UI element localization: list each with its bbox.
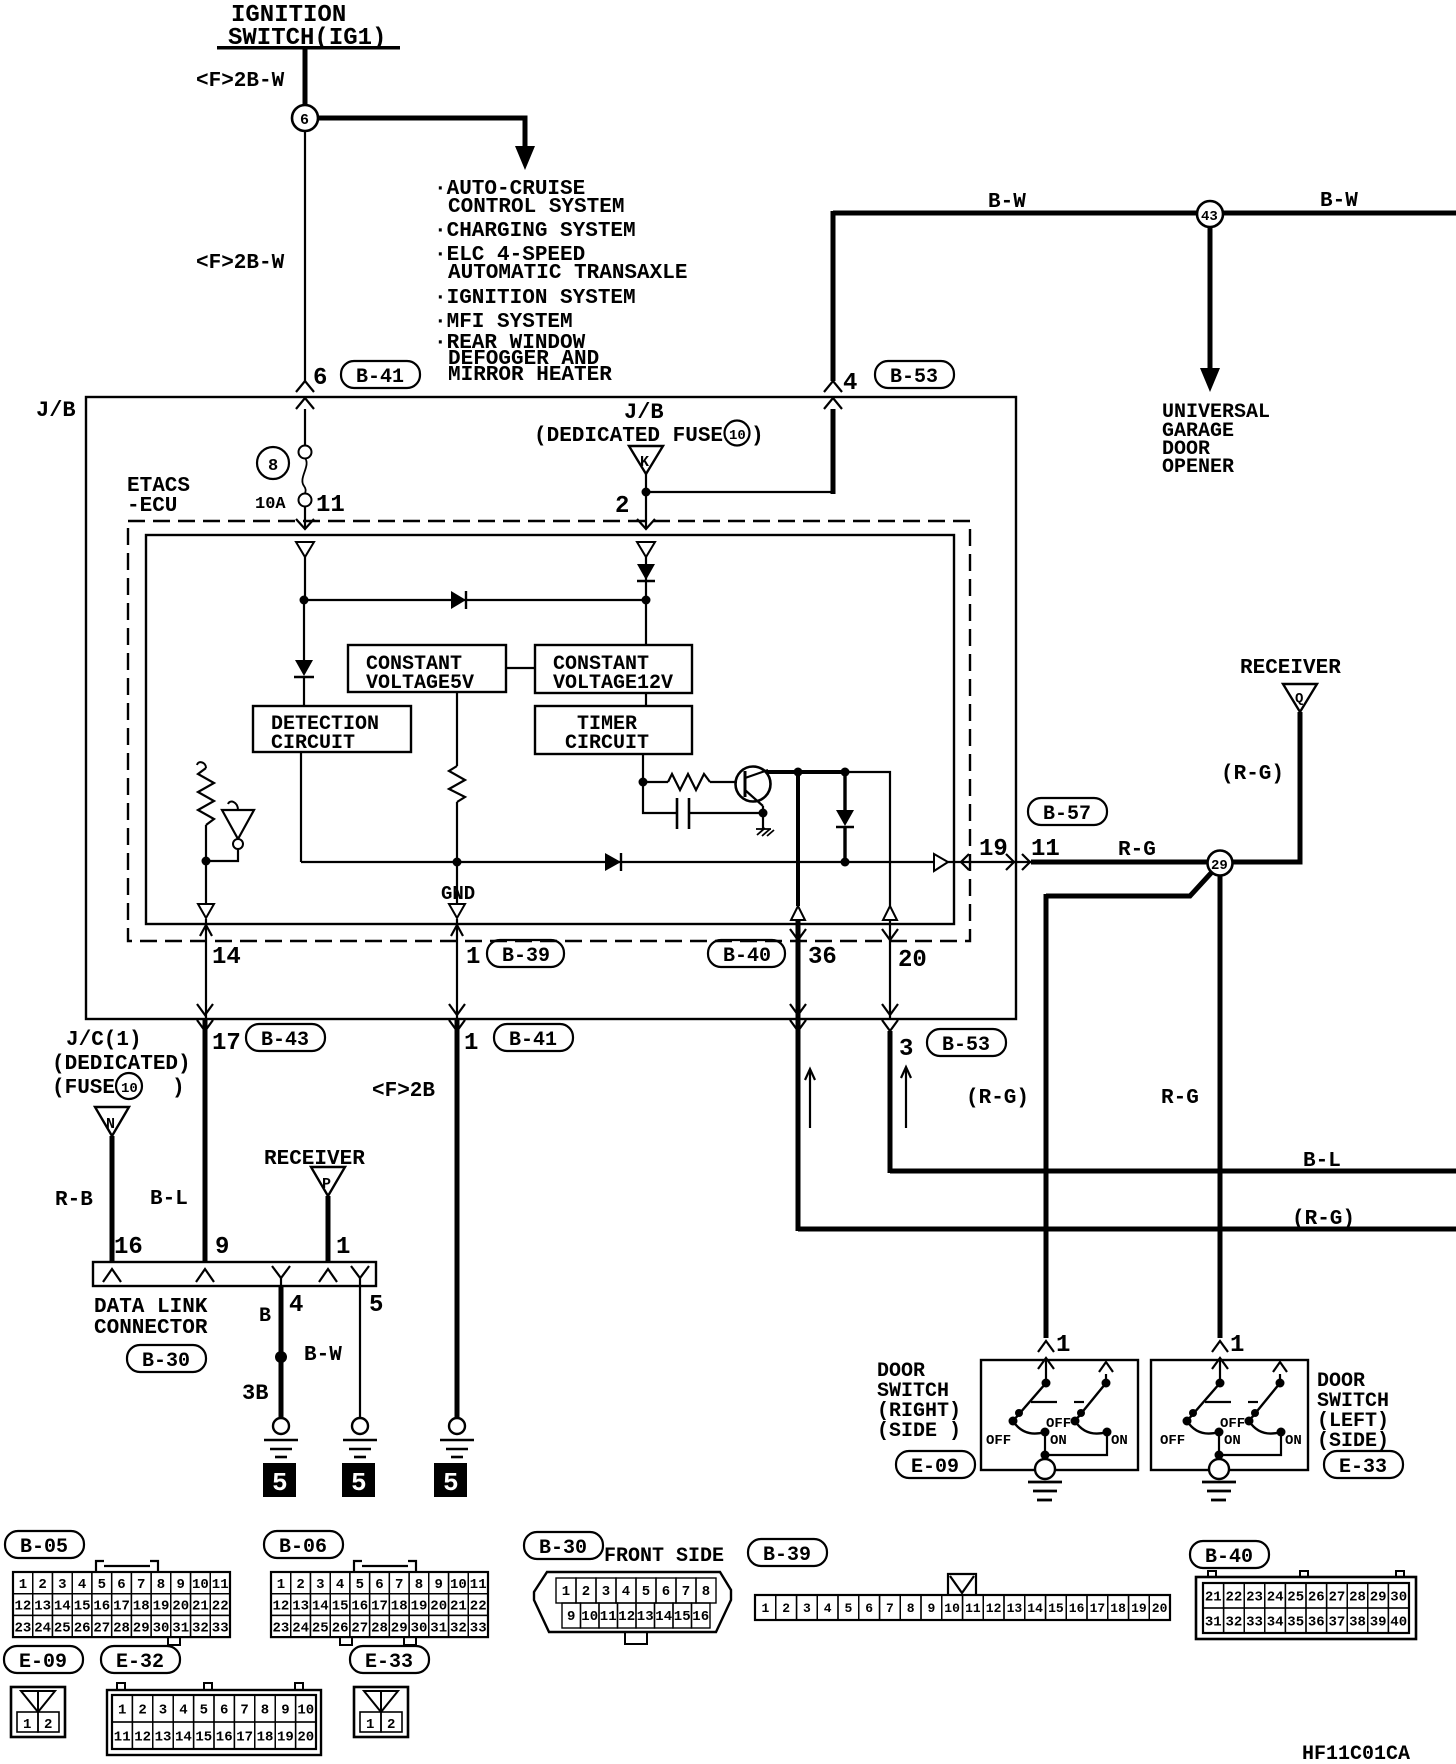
svg-text:3: 3 (316, 1577, 324, 1593)
svg-text:7: 7 (886, 1601, 894, 1616)
wire comparator to junction (206, 849, 238, 861)
svg-text:B-53: B-53 (890, 366, 938, 389)
ground right door (1028, 1459, 1062, 1500)
svg-text:12: 12 (15, 1599, 32, 1615)
svg-text:CIRCUIT: CIRCUIT (565, 732, 649, 755)
svg-text:2: 2 (615, 493, 629, 520)
node 29 (junction circle) (1208, 851, 1233, 876)
svg-text:34: 34 (1267, 1615, 1284, 1631)
svg-text:20: 20 (430, 1599, 447, 1615)
svg-text:28: 28 (113, 1620, 130, 1636)
svg-text:B-40: B-40 (723, 945, 771, 968)
svg-text:30: 30 (411, 1620, 428, 1636)
svg-text:31: 31 (172, 1620, 189, 1636)
wire B-W corner down to pin 4 (831, 211, 836, 381)
svg-text:R-B: R-B (55, 1189, 93, 1212)
svg-text:2: 2 (582, 1584, 590, 1600)
svg-text:6: 6 (300, 112, 309, 129)
svg-text:VOLTAGE12V: VOLTAGE12V (553, 672, 673, 695)
svg-text:11: 11 (600, 1609, 617, 1625)
right door switch mechanism (1009, 1360, 1114, 1462)
svg-text:29: 29 (1370, 1590, 1387, 1606)
wire pin 20 branch (846, 772, 890, 906)
ground ref mark 5 (pin 5) (342, 1463, 375, 1498)
svg-text:CONNECTOR: CONNECTOR (94, 1317, 208, 1340)
svg-text:B-06: B-06 (279, 1536, 327, 1559)
node IGNITION SWITCH (IG1) source label (217, 2, 400, 52)
svg-text:18: 18 (1110, 1601, 1126, 1616)
wire pin2 junction to B-W drop (646, 491, 834, 493)
svg-text:20: 20 (898, 947, 927, 974)
svg-text:RECEIVER: RECEIVER (1240, 657, 1341, 680)
svg-text:·MFI SYSTEM: ·MFI SYSTEM (434, 311, 573, 334)
svg-text:28: 28 (371, 1620, 388, 1636)
ground ref mark 5 (pin 1) (434, 1463, 467, 1498)
svg-text:CONTROL SYSTEM: CONTROL SYSTEM (448, 196, 624, 219)
svg-text:15: 15 (674, 1609, 691, 1625)
connector B-39 pin strip (755, 1574, 1170, 1620)
connector label B-39 (487, 940, 564, 968)
block TIMER CIRCUIT (535, 706, 692, 755)
svg-text:B-39: B-39 (763, 1544, 811, 1567)
label J/C(1) dedicated fuse (52, 1029, 191, 1100)
svg-text:(FUSE: (FUSE (52, 1077, 115, 1100)
wire GND drop (456, 862, 458, 904)
svg-text:23: 23 (1246, 1590, 1263, 1606)
svg-text:17: 17 (212, 1030, 241, 1057)
wire pin1 ground drop (thick) (455, 1019, 460, 1418)
flow arrow left (805, 1069, 815, 1128)
svg-text:10A: 10A (255, 495, 286, 514)
svg-text:J/C(1): J/C(1) (66, 1029, 142, 1052)
svg-text:3: 3 (159, 1703, 167, 1719)
svg-text:16: 16 (1069, 1601, 1085, 1616)
node dot diode on bus (841, 858, 850, 867)
svg-text:17: 17 (236, 1730, 253, 1746)
svg-text:R-G: R-G (1161, 1087, 1199, 1110)
label (DEDICATED FUSE 10) (534, 421, 764, 449)
svg-text:27: 27 (351, 1620, 368, 1636)
svg-text:J/B: J/B (624, 400, 664, 425)
svg-text:6: 6 (313, 365, 327, 392)
svg-text:2: 2 (38, 1577, 46, 1593)
wire right door switch drop (1044, 894, 1049, 1338)
svg-text:26: 26 (332, 1620, 349, 1636)
svg-text:2: 2 (387, 1717, 395, 1733)
label ETACS-ECU (127, 475, 190, 518)
wire pin2 to 12V block (645, 557, 647, 645)
svg-text:(R-G): (R-G) (1292, 1208, 1355, 1231)
svg-text:P: P (322, 1176, 331, 1193)
svg-text:15: 15 (332, 1599, 349, 1615)
svg-text:29: 29 (1211, 858, 1228, 874)
svg-text:5: 5 (642, 1584, 650, 1600)
sensor comparator (triangle symbol) (222, 802, 254, 849)
svg-text:3: 3 (899, 1036, 913, 1063)
svg-text:36: 36 (1308, 1615, 1325, 1631)
wire pin 19 through J/B edge (948, 861, 1031, 863)
svg-text:21: 21 (1205, 1590, 1222, 1606)
svg-text:): ) (172, 1077, 185, 1100)
svg-text:1: 1 (23, 1717, 31, 1733)
pin 19 chevron at J/B edge (1006, 854, 1014, 870)
pin 3 chevrons at J/B bottom edge (882, 1004, 898, 1031)
svg-text:20: 20 (1152, 1601, 1168, 1616)
svg-text:B-W: B-W (1320, 190, 1358, 213)
svg-text:OFF: OFF (1220, 1416, 1245, 1432)
DLC pin 4 chevron (272, 1266, 290, 1286)
svg-text:39: 39 (1370, 1615, 1387, 1631)
wire (R-G) horizontal (798, 1227, 1456, 1232)
wire DLC pin 5 to ground (359, 1286, 361, 1418)
svg-text:5: 5 (272, 1468, 288, 1498)
DLC pin 9 chevron (196, 1269, 214, 1282)
wire node 6 down to J/B pin 6 (304, 131, 306, 381)
svg-text:B-40: B-40 (1205, 1546, 1253, 1569)
svg-text:9: 9 (928, 1601, 936, 1616)
svg-text:35: 35 (1287, 1615, 1304, 1631)
svg-text:B-30: B-30 (539, 1537, 587, 1560)
DLC pin 1 chevron (319, 1269, 337, 1282)
svg-text:4: 4 (289, 1292, 303, 1319)
wire R2 to output bus (456, 802, 458, 862)
wire pin 36 drop (thick) (796, 772, 800, 906)
fuse 10A (symbol) (299, 446, 312, 507)
arrowhead to system list (515, 146, 535, 170)
DATA LINK CONNECTOR box (93, 1262, 376, 1286)
svg-text:2: 2 (296, 1577, 304, 1593)
connector label E-33 left door (1324, 1451, 1403, 1479)
svg-text:17: 17 (1090, 1601, 1106, 1616)
svg-text:B-41: B-41 (356, 366, 404, 389)
wire emitter to internal ground (762, 813, 764, 829)
svg-text:(R-G): (R-G) (966, 1087, 1029, 1110)
svg-text:23: 23 (273, 1620, 290, 1636)
svg-text:32: 32 (450, 1620, 467, 1636)
wire R1 to junction (205, 825, 207, 861)
svg-text:8: 8 (415, 1577, 423, 1593)
flow arrow right (901, 1067, 911, 1128)
wire node 29 diagonal to right door switch drop (1046, 872, 1212, 896)
svg-text:4: 4 (824, 1601, 832, 1616)
connector label B-41 bottom (494, 1024, 573, 1052)
svg-text:18: 18 (133, 1599, 150, 1615)
svg-text:B-L: B-L (1303, 1150, 1341, 1173)
svg-text:5: 5 (443, 1468, 459, 1498)
wire internal top horizontal 5V feed (304, 599, 646, 601)
connector label B-40 (708, 940, 785, 968)
diode D4 on output bus (605, 853, 621, 871)
diode D1 on 5V feed wire (451, 591, 466, 609)
svg-text:7: 7 (682, 1584, 690, 1600)
J/B junction block box (86, 397, 1016, 1019)
svg-text:16: 16 (692, 1609, 709, 1625)
ground G1 (pin 4) (264, 1418, 298, 1457)
DLC pin 5 chevron (351, 1266, 369, 1286)
node dot pin 4 wire (275, 1351, 287, 1363)
svg-text:5: 5 (369, 1292, 383, 1319)
svg-text:32: 32 (192, 1620, 209, 1636)
connector E-32 pin grid (107, 1683, 321, 1755)
svg-text:(R-G): (R-G) (1221, 763, 1284, 786)
wire emitter to capacitor node (762, 806, 764, 813)
pin 20 chevron below dashed edge (882, 929, 898, 940)
svg-text:(DEDICATED FUSE: (DEDICATED FUSE (534, 425, 723, 448)
wire detection circuit down to output bus (300, 752, 302, 862)
node dot collector/pin36 (794, 768, 803, 777)
svg-text:24: 24 (1267, 1590, 1284, 1606)
svg-text:17: 17 (371, 1599, 388, 1615)
svg-text:32: 32 (1226, 1615, 1243, 1631)
svg-text:15: 15 (195, 1730, 212, 1746)
svg-text:<F>2B: <F>2B (372, 1080, 435, 1103)
svg-text:28: 28 (1349, 1590, 1366, 1606)
svg-text:29: 29 (391, 1620, 408, 1636)
connector B-40 pin grid (1196, 1571, 1416, 1639)
svg-text:19: 19 (979, 836, 1008, 863)
wire 5V block down to resistor R2 (456, 692, 458, 766)
svg-text:2: 2 (44, 1717, 52, 1733)
pin 1 chevrons left door (1212, 1341, 1228, 1369)
left door switch mechanism (1183, 1360, 1288, 1462)
internal chassis ground (756, 828, 774, 836)
node dot base network (639, 778, 648, 787)
block DETECTION CIRCUIT (253, 706, 411, 755)
svg-text:CIRCUIT: CIRCUIT (271, 732, 355, 755)
svg-text:Q: Q (1295, 691, 1303, 707)
wire fuse N to DLC pin 16 (thick) (110, 1136, 115, 1262)
svg-text:B-57: B-57 (1043, 803, 1091, 826)
svg-text:6: 6 (117, 1577, 125, 1593)
wire node 43 down to garage door opener (1208, 227, 1213, 370)
svg-text:14: 14 (1027, 1601, 1043, 1616)
system list fed by ignition (434, 178, 687, 387)
svg-text:25: 25 (1287, 1590, 1304, 1606)
svg-text:MIRROR HEATER: MIRROR HEATER (448, 364, 612, 387)
pin 14 arrow crossing dashed edge (200, 919, 212, 1019)
ground G3 (pin 1/B-41) (440, 1418, 474, 1457)
svg-text:DATA LINK: DATA LINK (94, 1296, 208, 1319)
svg-text:20: 20 (297, 1730, 314, 1746)
wire internal output bus (301, 861, 934, 863)
svg-text:13: 13 (292, 1599, 309, 1615)
svg-text:OFF: OFF (986, 1433, 1011, 1449)
wire down to detection diode (303, 600, 305, 661)
svg-text:9: 9 (567, 1609, 575, 1625)
wire DLC pin 4 to ground (thick) (279, 1286, 284, 1418)
connector B-05 pin grid (13, 1561, 230, 1645)
svg-text:B: B (259, 1305, 271, 1328)
svg-text:14: 14 (312, 1599, 329, 1615)
svg-text:7: 7 (240, 1703, 248, 1719)
svg-text:13: 13 (1007, 1601, 1023, 1616)
svg-text:31: 31 (430, 1620, 447, 1636)
receiver P (triangle symbol) (311, 1167, 345, 1196)
svg-text:8: 8 (702, 1584, 710, 1600)
svg-text:27: 27 (93, 1620, 110, 1636)
svg-text:9: 9 (281, 1703, 289, 1719)
pin 6 connector chevrons at J/B top (296, 381, 314, 409)
svg-text:11: 11 (470, 1577, 487, 1593)
wire pin 36 below dashed box (thick) (796, 920, 801, 1019)
diode D5 clamp (836, 772, 854, 862)
svg-text:1: 1 (464, 1030, 478, 1057)
resistor R2 (449, 766, 465, 802)
svg-text:B-W: B-W (304, 1344, 342, 1367)
transistor Q1 (736, 767, 771, 807)
wire R-G main to node 29 (1031, 860, 1208, 865)
svg-text:22: 22 (1226, 1590, 1243, 1606)
node number 8 circled (257, 447, 289, 479)
svg-text:40: 40 (1390, 1615, 1407, 1631)
pin 4 connector chevrons at J/B top (824, 381, 842, 409)
svg-text:(DEDICATED): (DEDICATED) (52, 1053, 191, 1076)
connector label E-33 bottom (350, 1646, 429, 1674)
svg-text:15: 15 (74, 1599, 91, 1615)
svg-text:R-G: R-G (1118, 839, 1156, 862)
svg-text:8: 8 (907, 1601, 915, 1616)
wire node 29 down to left door switch (1218, 875, 1223, 1338)
svg-text:5: 5 (845, 1601, 853, 1616)
svg-text:8: 8 (261, 1703, 269, 1719)
connector label B-57 (1028, 798, 1107, 826)
svg-text:13: 13 (155, 1730, 172, 1746)
svg-text:30: 30 (153, 1620, 170, 1636)
svg-text:ON: ON (1050, 1433, 1067, 1449)
svg-text:4: 4 (179, 1703, 187, 1719)
svg-text:5: 5 (351, 1468, 367, 1498)
svg-text:33: 33 (212, 1620, 229, 1636)
svg-text:26: 26 (74, 1620, 91, 1636)
svg-text:11: 11 (114, 1730, 131, 1746)
svg-text:18: 18 (257, 1730, 274, 1746)
svg-text:10: 10 (944, 1601, 960, 1616)
connector label B-53 bottom (927, 1029, 1006, 1057)
svg-text:E-32: E-32 (116, 1651, 164, 1674)
svg-text:38: 38 (1349, 1615, 1366, 1631)
svg-text:17: 17 (113, 1599, 130, 1615)
svg-text:21: 21 (450, 1599, 467, 1615)
wire branch from node 6 to arrow (317, 118, 525, 148)
receiver Q (triangle symbol) (1283, 684, 1317, 712)
connector B-30 shape (OBD trapezoid) (534, 1572, 731, 1644)
svg-text:<F>2B-W: <F>2B-W (196, 70, 285, 93)
svg-text:23: 23 (15, 1620, 32, 1636)
wire fuse K down to ETACS pin 2 (645, 474, 647, 528)
svg-text:ON: ON (1285, 1433, 1302, 1449)
ground ref mark 5 (pin 4) (263, 1463, 296, 1498)
connector label B-05 (5, 1531, 84, 1559)
svg-text:24: 24 (34, 1620, 51, 1636)
dedicated fuse N (triangle symbol) (95, 1107, 129, 1136)
pin 1 chevrons at J/B bottom edge (449, 1004, 465, 1031)
wire pin 20 below dashed box (889, 920, 891, 1019)
svg-text:30: 30 (1390, 1590, 1407, 1606)
svg-text:11: 11 (1031, 836, 1060, 863)
block CONSTANT VOLTAGE 5V (348, 645, 506, 695)
connector label B-40 (1190, 1541, 1269, 1569)
svg-text:E-33: E-33 (1339, 1456, 1387, 1479)
svg-text:K: K (640, 454, 649, 471)
pin 19 chevron at dashed edge (961, 854, 969, 870)
svg-text:5: 5 (98, 1577, 106, 1593)
svg-text:27: 27 (1329, 1590, 1346, 1606)
svg-text:12: 12 (618, 1609, 635, 1625)
svg-text:18: 18 (391, 1599, 408, 1615)
svg-text:24: 24 (292, 1620, 309, 1636)
svg-text:FRONT SIDE: FRONT SIDE (604, 1545, 724, 1568)
pin 1 GND arrow crossing dashed edge (451, 919, 463, 1019)
svg-text:(SIDE ): (SIDE ) (877, 1420, 961, 1443)
svg-text:7: 7 (137, 1577, 145, 1593)
node junction dot pin2 (642, 488, 651, 497)
svg-text:J/B: J/B (36, 398, 76, 423)
svg-text:2: 2 (782, 1601, 790, 1616)
GND open triangle (449, 904, 465, 918)
wire pin3/B-53 drop (thick) (888, 1031, 893, 1173)
arrowhead to garage door opener (1200, 368, 1220, 392)
svg-text:4: 4 (78, 1577, 86, 1593)
pin 1 chevrons right door (1038, 1341, 1054, 1369)
svg-text:<F>2B-W: <F>2B-W (196, 252, 285, 275)
svg-text:29: 29 (133, 1620, 150, 1636)
wire receiver P to DLC pin 1 (thick) (326, 1196, 331, 1262)
svg-text:8: 8 (268, 457, 278, 476)
svg-text:12: 12 (273, 1599, 290, 1615)
pin 36 chevron below dashed edge (790, 929, 806, 940)
connector label E-09 (4, 1646, 83, 1674)
connector B-06 pin grid (271, 1561, 488, 1645)
svg-text:14: 14 (655, 1609, 672, 1625)
svg-text:11: 11 (965, 1601, 981, 1616)
connector label E-32 (101, 1646, 180, 1674)
svg-text:11: 11 (316, 492, 345, 519)
svg-text:10: 10 (450, 1577, 467, 1593)
wire B-W top horizontal (833, 211, 1456, 216)
svg-text:1: 1 (336, 1234, 350, 1261)
svg-text:10: 10 (297, 1703, 314, 1719)
pin 11 chevron at ETACS dashed edge (296, 519, 314, 529)
svg-text:6: 6 (865, 1601, 873, 1616)
pin 2 open triangle at ECU inner edge (637, 542, 655, 557)
pin 36 chevrons at J/B bottom edge (790, 1004, 806, 1031)
svg-text:4: 4 (336, 1577, 344, 1593)
svg-text:): ) (751, 425, 764, 448)
svg-text:3: 3 (602, 1584, 610, 1600)
svg-text:2: 2 (138, 1703, 146, 1719)
svg-text:B-L: B-L (150, 1188, 188, 1211)
svg-text:-ECU: -ECU (127, 495, 177, 518)
svg-text:6: 6 (220, 1703, 228, 1719)
connector E-09 shape (11, 1687, 65, 1737)
svg-text:1: 1 (762, 1601, 770, 1616)
svg-text:25: 25 (54, 1620, 71, 1636)
label DOOR SWITCH (RIGHT)(SIDE) (877, 1360, 961, 1443)
ETACS-ECU dashed boundary box (128, 521, 970, 941)
svg-text:16: 16 (93, 1599, 110, 1615)
wire 12V block to timer block (645, 693, 647, 706)
svg-text:33: 33 (1246, 1615, 1263, 1631)
svg-text:3: 3 (803, 1601, 811, 1616)
pin 2 chevron at ETACS dashed edge (637, 519, 655, 529)
diode D2 above detection circuit (294, 660, 314, 677)
svg-text:6: 6 (662, 1584, 670, 1600)
svg-text:21: 21 (192, 1599, 209, 1615)
diode D3 below pin 2 (637, 564, 655, 581)
svg-text:14: 14 (54, 1599, 71, 1615)
connector label B-53 top (875, 361, 954, 389)
door switch left side box (1151, 1360, 1308, 1470)
